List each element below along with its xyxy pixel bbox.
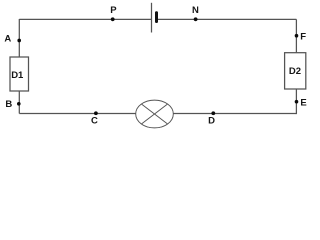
svg-text:N: N [192, 5, 199, 16]
svg-text:C: C [91, 115, 98, 126]
svg-text:E: E [300, 97, 306, 108]
svg-text:D: D [208, 116, 215, 127]
svg-text:D1: D1 [11, 70, 24, 81]
svg-text:P: P [110, 5, 117, 16]
svg-text:F: F [300, 31, 306, 42]
svg-text:D2: D2 [289, 66, 301, 77]
svg-text:A: A [4, 34, 11, 45]
svg-text:B: B [5, 99, 12, 110]
